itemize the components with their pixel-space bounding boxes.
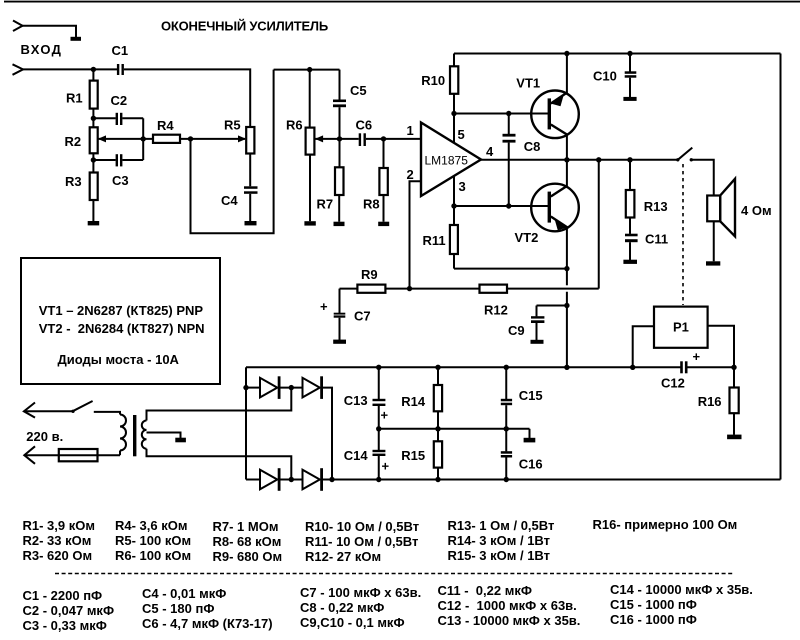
node output feedback [596,157,601,162]
wire fuse to primary bottom [119,451,121,456]
speaker BA1 [707,179,771,261]
input connector J1 [13,21,23,32]
top rail +V [454,53,781,55]
node VD1-VD2 [289,385,294,390]
ground R3 [88,221,100,225]
node C10 rail [627,51,632,56]
wire base VT2 row [454,205,549,207]
ground R16 [727,435,741,440]
transistor VT2 [515,184,579,245]
capacitor C9 [508,306,544,341]
svg-text:C1: C1 [112,43,129,58]
capacitor C13 electrolytic [344,367,389,429]
node P1 left rail [630,365,635,370]
node C13 top [376,365,381,370]
node emitter R11 [564,266,569,271]
svg-text:C4 - 0,01 мкФ: C4 - 0,01 мкФ [142,586,226,601]
svg-text:C16: C16 [519,456,543,471]
node C5-R7 junction [337,136,342,141]
ground C4 [245,221,257,225]
resistor R10 [421,54,458,114]
ground R8 [378,222,389,226]
node bridge top left [243,385,248,390]
supply mid rail [246,366,734,368]
pin 2 label [407,167,414,182]
svg-text:VT1: VT1 [516,76,540,91]
parts list capacitors column 5 [610,582,753,627]
output wire pin4 [480,159,678,161]
svg-text:C11: C11 [645,232,668,247]
svg-text:R11- 10 Ом / 0,5Вт: R11- 10 Ом / 0,5Вт [305,534,418,549]
svg-text:C2 - 0,047 мкФ: C2 - 0,047 мкФ [23,603,115,618]
parts list resistors column 4 [305,519,419,564]
resistor R7 [317,139,344,222]
svg-text:R10: R10 [421,73,445,88]
svg-text:R6- 100 кОм: R6- 100 кОм [115,548,191,563]
capacitor C16 [501,429,543,480]
separator dashed [55,573,733,575]
op-amp U1 LM1875 triangle [421,123,481,197]
wire secondary bottom [147,449,292,480]
svg-text:C7: C7 [354,308,371,323]
svg-text:+: + [381,408,389,423]
ground input [71,37,82,41]
capacitor C2 [93,93,143,125]
node bridge out bottom [329,477,334,482]
relay P1 box [654,307,708,348]
node output R13 [627,157,632,162]
input connector J2 [13,64,24,75]
node R4-R5 feedback junction [188,136,193,141]
pin 5 label [458,127,465,142]
right rail [780,54,782,480]
resistor R13 [626,160,668,234]
capacitor C11 [625,232,668,260]
svg-text:C14 - 10000 мкФ x 35в.: C14 - 10000 мкФ x 35в. [610,582,753,597]
wire switch to speaker [691,160,713,196]
wire C2-C3 vertical [142,118,144,160]
svg-text:C13 - 10000 мкФ x 35в.: C13 - 10000 мкФ x 35в. [438,613,581,628]
svg-text:2: 2 [407,167,414,182]
parts list resistors column 5 [448,518,555,563]
wire input1 to ground [23,26,77,37]
resistor R11 [423,206,458,269]
ground C9 [531,340,544,344]
spec box [21,258,220,384]
node rail R16 [731,365,736,370]
switch SA output [676,148,693,162]
svg-text:R7: R7 [317,197,334,212]
svg-text:C8: C8 [524,139,541,154]
title [161,18,328,33]
svg-text:P1: P1 [673,320,689,335]
svg-text:R2: R2 [65,134,82,149]
svg-text:R12- 27 кОм: R12- 27 кОм [305,549,381,564]
wire R4 to R5 arrow [180,135,246,142]
wire R11 to emitter node [454,268,567,270]
node pin5 R10 [451,111,456,116]
svg-text:C12 - 1000 мкФ x 63в.: C12 - 1000 мкФ x 63в. [438,598,577,613]
svg-text:R4- 3,6 кОм: R4- 3,6 кОм [115,518,187,533]
node R14 top [435,365,440,370]
resistor R14 [401,367,442,429]
capacitor C1 [112,43,129,75]
svg-text:R11: R11 [423,233,446,248]
svg-text:C15: C15 [519,388,543,403]
parts list capacitors column 1 [23,588,115,633]
svg-text:C3: C3 [112,173,129,188]
wire secondary top [147,388,292,421]
svg-text:R10- 10 Ом / 0,5Вт: R10- 10 Ом / 0,5Вт [305,519,419,534]
wire feedback loop down [191,70,274,234]
svg-text:VT1 – 2N6287 (КТ825) PNP: VT1 – 2N6287 (КТ825) PNP [39,303,204,318]
capacitor C5 [333,70,367,139]
node wiper junction [141,136,146,141]
resistor R2 potentiometer [65,127,98,172]
svg-text:R13: R13 [644,199,668,214]
parts list capacitors column 2 [142,586,273,631]
svg-text:LM1875: LM1875 [425,154,469,168]
svg-text:5: 5 [458,127,465,142]
node VT1 emitter rail [564,51,569,56]
wire base VT1 row [454,113,549,115]
wire 220 top [24,410,73,412]
svg-text:R8- 68 кОм: R8- 68 кОм [213,534,282,549]
ground speaker [706,261,720,265]
wire feedback vertical [598,160,600,289]
diode VD1 [246,376,303,399]
node R2-R3 [91,157,96,162]
resistor R4 [153,118,180,143]
node C14 bottom [376,477,381,482]
capacitor C10 [593,54,636,98]
capacitor C8 [503,114,541,207]
wire C1 to R5 top [124,69,250,127]
svg-text:C10: C10 [593,68,617,83]
svg-text:Диоды моста - 10А: Диоды моста - 10А [58,352,180,367]
svg-text:220 в.: 220 в. [26,429,63,444]
ground R6 [304,221,315,225]
node pin3 R11 [451,203,456,208]
ground C11 [623,260,637,264]
resistor R16 [698,367,739,435]
svg-text:C6 - 4,7 мкФ (К73-17): C6 - 4,7 мкФ (К73-17) [142,616,273,631]
svg-text:C16 - 1000 пФ: C16 - 1000 пФ [610,612,697,627]
svg-text:R1- 3,9 кОм: R1- 3,9 кОм [23,518,95,533]
svg-text:R15- 3 кОм / 1Вт: R15- 3 кОм / 1Вт [448,548,551,563]
wire block2 top [274,69,340,71]
fuse FU1 [59,449,98,461]
node C13 bottom [376,426,381,431]
svg-text:C11 - 0,22 мкФ: C11 - 0,22 мкФ [438,583,532,598]
capacitor C15 [501,367,543,429]
svg-text:R9- 680 Ом: R9- 680 Ом [213,549,283,564]
node output VT collectors [564,157,569,162]
svg-text:C8 - 0,22 мкФ: C8 - 0,22 мкФ [300,600,384,615]
svg-text:ВХОД: ВХОД [21,42,63,57]
svg-text:R12: R12 [484,303,508,318]
svg-text:+: + [382,459,390,474]
dashed relay link [682,164,684,305]
label 220 в. [26,429,63,444]
svg-text:C5 - 180 пФ: C5 - 180 пФ [142,601,214,616]
node C16 bottom [504,477,509,482]
svg-text:R7- 1 МОм: R7- 1 МОм [213,519,279,534]
svg-text:R15: R15 [401,448,425,463]
pin 3 wire [453,176,455,207]
resistor R8 [363,139,388,222]
svg-text:+: + [320,299,328,314]
svg-text:R8: R8 [363,197,380,212]
pin 1 label [407,123,414,138]
node C15 bottom [504,426,509,431]
node C9 tap [564,303,569,308]
resistor R3 [65,173,98,222]
node R8 top [381,136,386,141]
capacitor C14 electrolytic [344,429,390,480]
wire P1 right [708,326,734,368]
svg-text:R2- 33 кОм: R2- 33 кОм [23,533,92,548]
capacitor C4 [221,186,258,221]
svg-text:R3: R3 [65,174,82,189]
wire VT1 emitter up [566,54,568,94]
parts list capacitors column 4 [438,583,581,628]
svg-text:R3- 620 Ом: R3- 620 Ом [23,548,93,563]
resistor R15 [401,429,442,480]
resistor R9 [340,267,480,293]
resistor R1 [66,69,98,127]
svg-text:C12: C12 [661,376,685,391]
svg-text:C3 - 0,33 мкФ: C3 - 0,33 мкФ [23,618,107,633]
capacitor C6 [356,118,422,147]
ground 0V rail [524,429,536,443]
node C8 bottom [506,203,511,208]
bottom rail [323,479,781,481]
label ВХОД [21,42,63,57]
ground R7 [334,222,345,226]
svg-text:R14- 3 кОм / 1Вт: R14- 3 кОм / 1Вт [448,533,551,548]
parts list resistors column 1 [23,518,95,563]
pin 4 label [486,144,494,159]
svg-text:R5- 100 кОм: R5- 100 кОм [115,533,191,548]
wire R2 wiper arrow [98,135,153,142]
wire P1 left [633,326,654,367]
svg-text:C13: C13 [344,393,368,408]
svg-text:C1 - 2200 пФ: C1 - 2200 пФ [23,588,103,603]
220V connector top [24,403,35,418]
wire bridge left vertical [245,367,247,479]
diode VD2 [303,376,333,479]
parts list capacitors column 3 [300,585,421,630]
parts list resistors column 6 [593,517,738,532]
wire VT2 emitter down with crossover gap [566,227,568,367]
middle 0V rail [379,428,530,430]
svg-text:R6: R6 [286,118,303,133]
ground center tap [175,438,186,443]
transformer core [133,415,136,456]
svg-text:R5: R5 [224,118,241,133]
svg-text:VT2 - 2N6284 (КТ827) NPN: VT2 - 2N6284 (КТ827) NPN [39,321,205,336]
wire secondary center tap [147,433,181,439]
svg-text:R4: R4 [157,118,174,133]
svg-text:3: 3 [459,179,466,194]
top border line [4,1,800,3]
wire VT1 collector down to output [566,134,568,160]
svg-text:C6: C6 [356,118,373,133]
capacitor C7 electrolytic [320,289,371,340]
capacitor C12 [661,349,701,391]
node C8 top [506,111,511,116]
pin 5 wire [453,114,455,144]
wire 220 bottom with fuse [24,454,120,456]
wire switch to primary [94,412,120,415]
transformer T1 secondary winding [142,421,147,449]
ground C10 [623,97,636,101]
resistor R6 potentiometer [286,70,314,222]
node C15 top [504,365,509,370]
node R15 bottom [435,477,440,482]
svg-text:C2: C2 [111,93,128,108]
diode VD3 [246,468,303,491]
node input junction [91,67,96,72]
svg-text:VT2: VT2 [515,230,539,245]
svg-text:R16- примерно 100 Ом: R16- примерно 100 Ом [593,517,738,532]
wire input2 [23,68,117,70]
svg-text:R16: R16 [698,394,722,409]
parts list resistors column 3 [213,519,283,564]
svg-text:4: 4 [486,144,494,159]
svg-text:C4: C4 [221,193,238,208]
svg-text:R14: R14 [401,394,426,409]
svg-text:C15 - 1000 пФ: C15 - 1000 пФ [610,597,697,612]
parts list resistors column 2 [115,518,191,563]
wire VT2 collector up [566,160,568,187]
node R6 top [307,67,312,72]
svg-text:C9: C9 [508,323,525,338]
transformer T1 primary winding [120,415,126,451]
node R14 bottom [435,426,440,431]
svg-text:ОКОНЕЧНЫЙ УСИЛИТЕЛЬ: ОКОНЕЧНЫЙ УСИЛИТЕЛЬ [161,18,328,33]
switch mains [71,401,92,413]
svg-text:R9: R9 [361,267,378,282]
svg-text:+: + [693,349,701,364]
node VD3-VD4 [289,477,294,482]
wire R6 wiper arrow [315,135,359,142]
svg-text:C14: C14 [344,448,369,463]
ground C7 [333,340,346,344]
node pin2 R9 R12 [407,286,412,291]
capacitor C3 [93,154,143,188]
resistor R12 [480,285,599,318]
pin 3 label [459,179,466,194]
svg-text:4 Ом: 4 Ом [741,203,772,218]
svg-text:1: 1 [407,123,414,138]
wire C9 tap [537,305,567,307]
node emitter rail [564,365,569,370]
svg-text:R1: R1 [66,91,83,106]
node R1-R2 [91,116,96,121]
svg-text:C9,C10 - 0,1 мкФ: C9,C10 - 0,1 мкФ [300,615,405,630]
transistor VT1 [516,76,579,139]
pin 2 wire [410,181,422,288]
diode VD4 [303,468,324,491]
220V connector bottom [24,446,35,464]
svg-text:C7 - 100 мкФ x 63в.: C7 - 100 мкФ x 63в. [300,585,421,600]
svg-text:R13- 1 Ом / 0,5Вт: R13- 1 Ом / 0,5Вт [448,518,555,533]
svg-text:C5: C5 [350,83,367,98]
resistor R5 potentiometer [224,118,254,187]
